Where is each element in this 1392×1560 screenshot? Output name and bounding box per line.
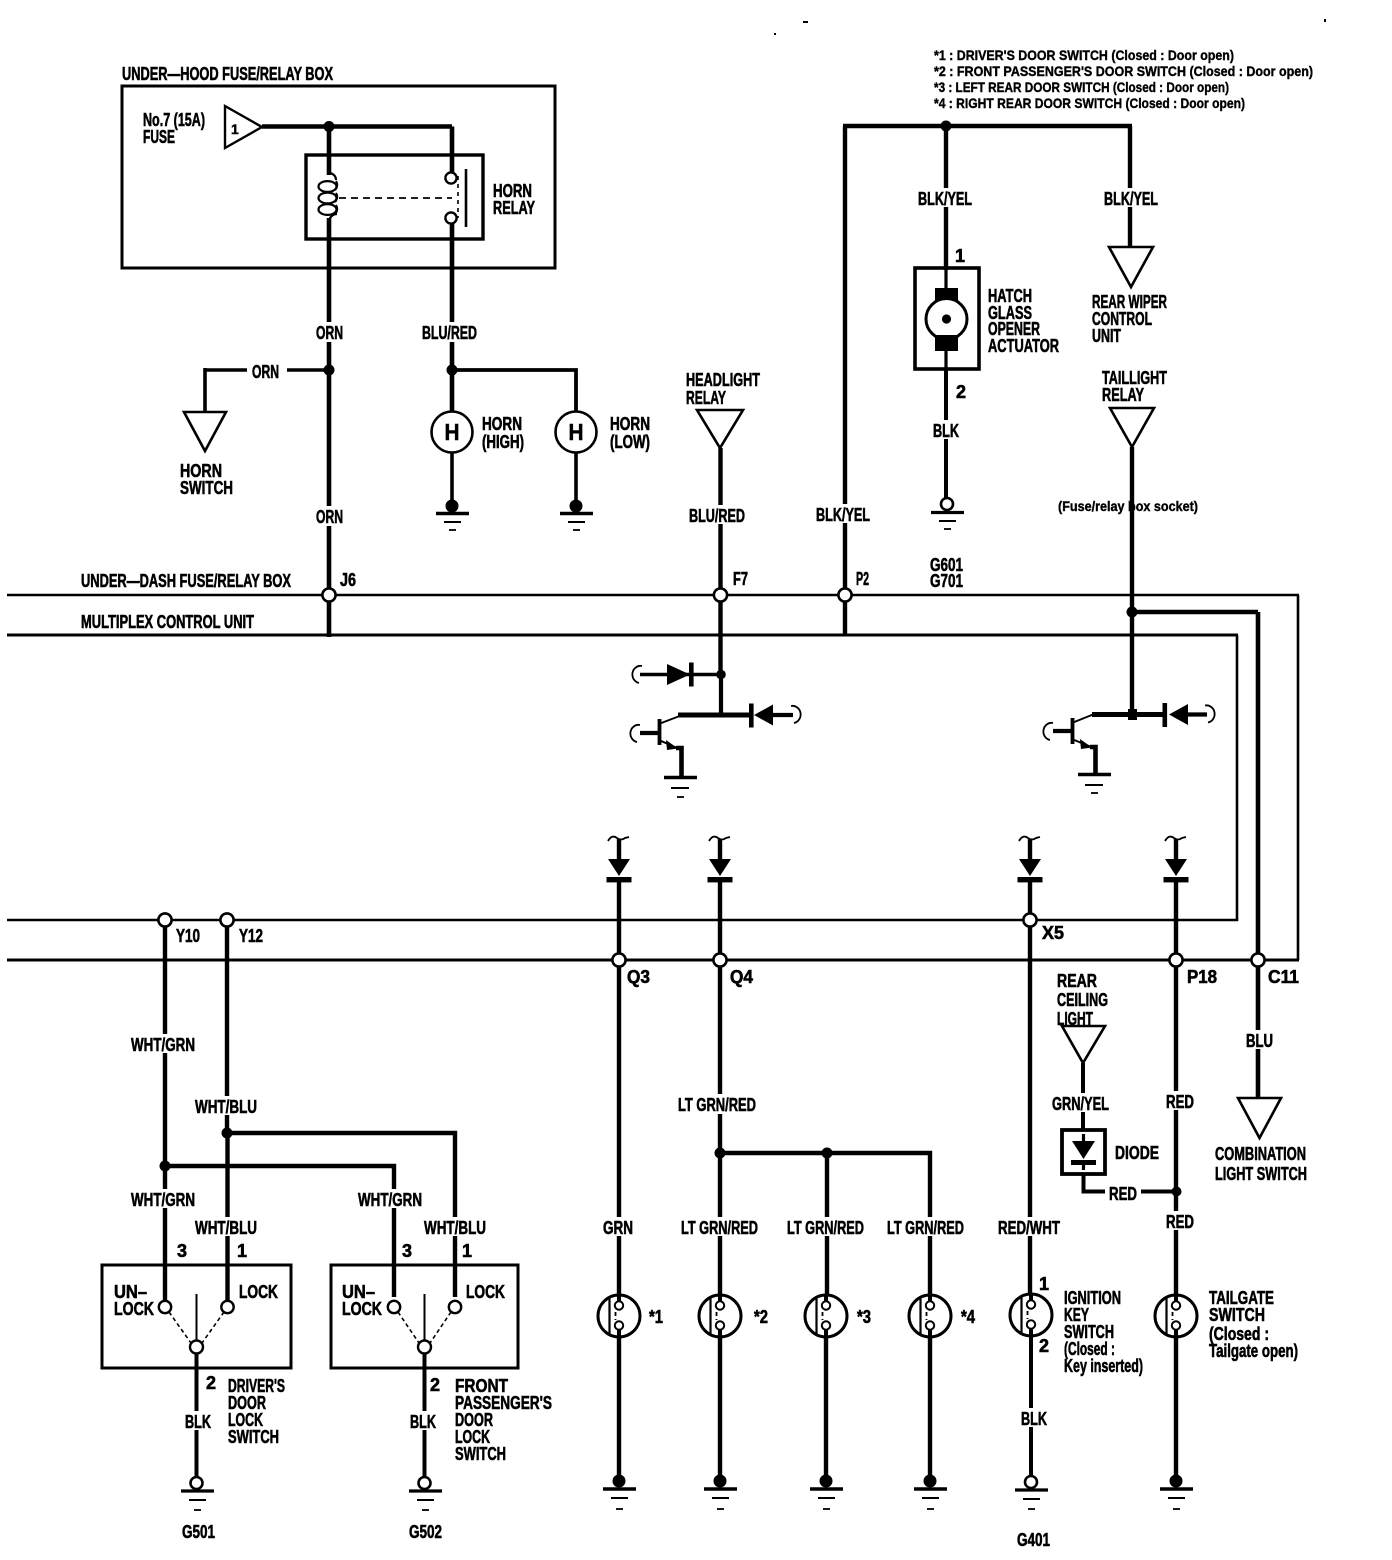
diode D3 right transistor [1163,703,1215,727]
label GRN [599,1217,639,1238]
node junction taillight branch [1127,607,1138,618]
svg-text:WHT/BLU: WHT/BLU [195,1097,257,1117]
wire RED/WHT X5 down to ignition key switch [1028,882,1032,1296]
passenger lock switch contact UN-LOCK [388,1301,400,1313]
svg-text:BLU/RED: BLU/RED [422,323,477,343]
label GRN/YEL [1048,1093,1113,1114]
label WHT/BLU lower right [420,1217,490,1238]
svg-text:RELAY: RELAY [686,388,726,408]
svg-text:H: H [569,419,584,445]
label BLU [1242,1030,1277,1051]
wire BLU/RED relay contact down to horns [450,223,455,412]
svg-text:LOCK: LOCK [239,1282,278,1302]
svg-text:SWITCH: SWITCH [1209,1305,1265,1325]
label WHT/GRN lower left [127,1189,199,1210]
svg-text:1: 1 [955,246,965,266]
svg-text:2: 2 [206,1373,216,1393]
horn relay dashed actuation line [339,197,452,199]
svg-text:P2: P2 [856,569,869,589]
horn low circle [556,412,597,453]
svg-text:BLK/YEL: BLK/YEL [816,505,870,525]
ground tailgate switch [1160,1475,1193,1510]
horn relay coil [329,173,336,180]
actuator motor center dot [942,314,951,323]
horn switch triangle [184,412,226,451]
wire branch to horn low [452,370,576,412]
svg-text:SWITCH: SWITCH [455,1444,506,1464]
label ORN lower [312,506,348,527]
svg-text:LT GRN/RED: LT GRN/RED [787,1218,864,1238]
svg-text:*4 : RIGHT REAR DOOR SWITCH (C: *4 : RIGHT REAR DOOR SWITCH (Closed : Do… [934,95,1245,111]
svg-text:UNDER—HOOD FUSE/RELAY BOX: UNDER—HOOD FUSE/RELAY BOX [122,64,333,84]
node junction RED [1172,1187,1182,1197]
wire branch to door switches 3 and 4 [720,1153,930,1297]
wire passenger lock switch pin 2 to ground [423,1353,427,1478]
svg-text:ORN: ORN [316,507,343,527]
svg-text:ORN: ORN [252,362,279,382]
svg-text:LT GRN/RED: LT GRN/RED [678,1095,756,1115]
connector J6 [322,588,335,601]
label BLK/YEL wiper [1100,188,1162,209]
actuator motor wire out [944,347,947,369]
horn relay contact bar [465,169,468,227]
passenger door lock switch box [331,1265,518,1368]
ground G601 open circle [931,498,964,529]
svg-text:1: 1 [1039,1274,1049,1294]
svg-text:1: 1 [231,121,239,137]
svg-text:1: 1 [462,1241,472,1261]
label BLK passenger [406,1411,440,1432]
wire tailgate switch to ground [1174,1337,1178,1477]
wire ORN branch to horn switch [205,368,329,372]
svg-text:H: H [445,419,460,445]
svg-text:(LOW): (LOW) [610,432,650,452]
wire BLK actuator to ground [944,369,948,499]
ground door switch 3 [810,1475,843,1510]
label LT GRN/RED wire 4 [883,1217,969,1238]
label BLK driver [181,1411,215,1432]
diode D5 above Q4 [708,837,733,883]
svg-text:LT GRN/RED: LT GRN/RED [681,1218,758,1238]
svg-text:Y10: Y10 [176,926,200,946]
wire BLK/YEL down to P2 [843,126,847,636]
label LT GRN/RED above junction [674,1094,760,1115]
wire ORN down to J6 [327,370,332,637]
svg-text:RED/WHT: RED/WHT [998,1218,1060,1238]
transistor Q-right node junction [1128,709,1137,720]
svg-text:(HIGH): (HIGH) [482,432,524,452]
svg-text:*2: *2 [754,1307,768,1327]
multiplex control unit bottom border line [7,919,1238,922]
svg-text:MULTIPLEX CONTROL UNIT: MULTIPLEX CONTROL UNIT [81,612,254,632]
wire contact feed down [450,127,455,174]
actuator motor commutator bottom [935,335,958,351]
svg-text:Q3: Q3 [627,967,650,987]
wire door switch 3 to ground [824,1337,828,1477]
svg-text:WHT/GRN: WHT/GRN [131,1190,195,1210]
svg-text:REAR: REAR [1057,971,1097,991]
scan speck [1324,19,1326,22]
node junction WHT/BLU [222,1128,233,1139]
wire coil bottom down [327,218,332,370]
svg-text:HORN: HORN [482,414,522,434]
svg-text:BLK/YEL: BLK/YEL [918,189,972,209]
svg-text:DIODE: DIODE [1115,1143,1159,1163]
under-dash fuse/relay box right border [1297,595,1300,960]
headlight relay triangle [697,410,743,448]
svg-text:F7: F7 [733,569,748,589]
ground left transistor [664,778,697,798]
ground horn low [560,500,593,531]
svg-text:*1: *1 [649,1307,663,1327]
diode D8 box [1062,1130,1105,1174]
svg-text:SWITCH: SWITCH [180,478,233,498]
svg-text:RELAY: RELAY [1102,385,1144,405]
connector C11 [1251,953,1264,966]
passenger lock switch pole [398,1294,451,1354]
svg-text:Y12: Y12 [239,926,263,946]
node junction BLK/YEL [941,121,952,132]
wire GRN Q3 down to door switch 1 [617,882,621,1297]
wire BLK/YEL down to actuator [944,126,948,270]
label WHT/BLU lower left [191,1217,261,1238]
wire door switch 2 to ground [718,1337,722,1477]
under-hood fuse/relay box outline [122,86,555,268]
svg-text:BLK: BLK [933,421,959,441]
label BLU/RED at F7 [685,505,750,526]
wire WHT/BLU into driver lock switch [225,1133,229,1302]
svg-text:HORN: HORN [610,414,650,434]
wire RED P18 down to tailgate switch [1174,882,1178,1297]
scan speck [803,21,808,23]
wire base rail right transistor [1092,712,1163,717]
rear wiper control unit triangle [1109,247,1153,287]
diode D4 above Q3 [607,837,632,883]
svg-text:LOCK: LOCK [114,1299,154,1319]
svg-text:BLU: BLU [1246,1031,1273,1051]
hatch glass opener actuator box [915,268,979,369]
driver lock switch contact LOCK [221,1301,233,1313]
horn relay moving contact dashed [457,176,459,218]
connector P2 [838,588,851,601]
label BLK ignition [1017,1408,1051,1429]
wire base rail left transistor [678,713,752,718]
under-dash fuse/relay box bottom border line [7,959,1299,962]
svg-text:Q4: Q4 [730,967,753,987]
driver door lock switch box [102,1265,291,1368]
scan speck [774,33,776,35]
svg-text:3: 3 [402,1241,412,1261]
actuator motor wire in [944,268,947,292]
wire horn switch drop [203,368,207,413]
svg-text:Key inserted): Key inserted) [1064,1356,1143,1376]
svg-text:ORN: ORN [316,323,343,343]
label RED/WHT [994,1217,1064,1238]
tailgate switch circle [1155,1295,1197,1337]
label ORN branch [247,361,287,382]
svg-text:RED: RED [1166,1092,1194,1112]
door switch 4 circle [909,1295,951,1337]
svg-text:WHT/GRN: WHT/GRN [131,1035,195,1055]
wire coil feed down [327,127,332,176]
wire WHT/GRN Y10 down [163,921,167,1166]
label WHT/BLU upper [191,1096,261,1117]
wire down to door switch 3 [825,1153,829,1297]
label WHT/GRN lower right [354,1189,426,1210]
driver lock switch pole [169,1294,224,1354]
wire BLK ignition to ground [1029,1336,1033,1477]
wire GRN/YEL ceiling light to diode [1081,1063,1085,1130]
svg-text:RED: RED [1166,1212,1194,1232]
ground G502 [409,1477,442,1510]
svg-text:*2 : FRONT PASSENGER'S DOOR SW: *2 : FRONT PASSENGER'S DOOR SWITCH (Clos… [934,63,1313,79]
svg-text:BLK: BLK [410,1412,436,1432]
ground door switch 2 [704,1475,737,1510]
svg-text:UNDER—DASH FUSE/RELAY BOX: UNDER—DASH FUSE/RELAY BOX [81,571,291,591]
ground right transistor [1078,775,1111,794]
svg-text:1: 1 [237,1241,247,1261]
node junction LT GRN/RED branch [715,1148,726,1159]
label RED diode [1105,1183,1141,1204]
svg-text:WHT/BLU: WHT/BLU [195,1218,257,1238]
connector F7 [714,588,727,601]
multiplex control unit right border [1236,635,1239,921]
label BLU/RED upper [418,322,481,343]
svg-text:*3 : LEFT REAR DOOR SWITCH (Cl: *3 : LEFT REAR DOOR SWITCH (Closed : Doo… [934,79,1229,95]
fuse F1 triangle symbol [225,106,262,148]
svg-text:WHT/GRN: WHT/GRN [358,1190,422,1210]
svg-text:BLU/RED: BLU/RED [689,506,745,526]
label BLK actuator [929,420,963,441]
svg-text:*3: *3 [857,1307,871,1327]
wire fuse output to relay [262,124,452,129]
actuator motor circle [926,299,967,340]
svg-text:C11: C11 [1268,967,1299,987]
wire BLU/RED headlight relay to F7 [718,448,722,676]
label LT GRN/RED wire 3 [783,1217,869,1238]
svg-text:LOCK: LOCK [466,1282,505,1302]
connector Q3 [612,953,625,966]
svg-text:*1 : DRIVER'S DOOR SWITCH (Clo: *1 : DRIVER'S DOOR SWITCH (Closed : Door… [934,47,1234,63]
svg-text:2: 2 [1039,1336,1049,1356]
horn relay lower contact circle [445,212,456,223]
svg-text:UNIT: UNIT [1092,326,1121,346]
svg-text:G501: G501 [182,1522,215,1542]
multiplex control unit top border line [7,634,1238,637]
connector X5 [1023,913,1036,926]
door switch 3 circle [805,1295,847,1337]
diode D6 above X5 [1018,837,1043,883]
svg-text:WHT/BLU: WHT/BLU [424,1218,486,1238]
wire door switch 1 to ground [617,1337,621,1477]
svg-text:COMBINATION: COMBINATION [1215,1144,1306,1164]
connector Q4 [713,953,726,966]
ignition key switch circle [1010,1294,1052,1336]
wire BLK/YEL down to rear wiper [1128,126,1132,248]
transistor Q1 [630,716,681,777]
wire WHT/BLU branch to passenger lock switch [227,1133,455,1297]
diode D1 into left transistor node [632,663,721,687]
wire taillight relay down [1130,447,1134,715]
wire node down to base rail [719,675,723,716]
wire WHT/BLU Y12 down [225,921,229,1133]
door switch 1 circle [598,1295,640,1337]
under-dash fuse/relay box top border line [7,594,1299,597]
wire horn low to ground [574,452,578,503]
svg-text:LOCK: LOCK [342,1299,382,1319]
horn high circle [432,412,473,453]
label LT GRN/RED wire 2 [677,1217,763,1238]
svg-text:P18: P18 [1187,967,1217,987]
node junction WHT/GRN [160,1161,171,1172]
wire horn high to ground [450,452,454,503]
ground G401 [1015,1476,1048,1509]
taillight relay triangle [1110,408,1154,447]
actuator motor commutator top [935,288,958,303]
ground door switch 4 [914,1475,947,1510]
label WHT/GRN upper [127,1034,199,1055]
svg-text:GRN/YEL: GRN/YEL [1052,1094,1109,1114]
svg-text:G502: G502 [409,1522,442,1542]
svg-text:(Fuse/relay box socket): (Fuse/relay box socket) [1058,498,1198,514]
label BLK/YEL actuator [914,188,976,209]
wire WHT/GRN into driver lock switch [163,1166,167,1302]
svg-text:G401: G401 [1017,1530,1050,1550]
svg-text:G701: G701 [930,571,963,591]
passenger lock switch contact LOCK [449,1301,461,1313]
horn relay box [306,155,483,239]
svg-text:BLK: BLK [185,1412,211,1432]
horn relay upper contact circle [445,172,456,183]
ground door switch 1 [603,1475,636,1510]
ground G501 [181,1477,214,1510]
wire RED diode to junction [1084,1174,1178,1192]
wire BLK/YEL top distribution [843,124,1132,129]
node junction fuse wire [324,121,335,132]
connector P18 [1169,953,1182,966]
node junction door switch 3 [822,1148,833,1159]
connector Y10 [158,913,171,926]
svg-text:X5: X5 [1042,923,1064,943]
svg-text:CEILING: CEILING [1057,990,1108,1010]
svg-text:LIGHT SWITCH: LIGHT SWITCH [1215,1164,1307,1184]
svg-text:LT GRN/RED: LT GRN/RED [887,1218,964,1238]
svg-text:BLK/YEL: BLK/YEL [1104,189,1158,209]
wire BLU down through C11 [1256,612,1261,1099]
svg-text:J6: J6 [340,570,356,590]
driver lock switch contact UN-LOCK [159,1301,171,1313]
connector Y12 [220,913,233,926]
wire driver lock switch pin 2 to ground [195,1353,199,1478]
transistor Q-left collector junction [716,670,726,680]
svg-text:Tailgate open): Tailgate open) [1209,1341,1298,1361]
label ORN upper [312,322,348,343]
svg-text:RED: RED [1109,1184,1137,1204]
label BLK/YEL at P2 [812,504,874,525]
svg-text:2: 2 [956,382,966,402]
svg-text:*4: *4 [961,1307,975,1327]
svg-text:2: 2 [430,1375,440,1395]
transistor Q2 [1043,715,1095,774]
diode D2 right of left transistor [749,704,801,728]
label RED above junction [1162,1091,1198,1112]
ground horn high [436,500,469,531]
wire taillight branch to C11 [1132,610,1258,615]
svg-text:HEADLIGHT: HEADLIGHT [686,370,760,390]
svg-text:ACTUATOR: ACTUATOR [988,336,1059,356]
diode D7 above P18 [1164,837,1189,883]
svg-text:FUSE: FUSE [143,127,175,147]
svg-text:BLK: BLK [1021,1409,1047,1429]
svg-text:SWITCH: SWITCH [228,1427,279,1447]
label RED below junction [1162,1211,1198,1232]
wire door switch 4 to ground [928,1337,932,1477]
door switch 2 circle [699,1295,741,1337]
node junction ORN branch [324,365,335,376]
rear ceiling light triangle [1062,1026,1105,1063]
svg-text:RELAY: RELAY [493,198,535,218]
wire LT GRN/RED Q4 down to door switch 2 [718,882,722,1297]
svg-text:3: 3 [177,1241,187,1261]
svg-text:GRN: GRN [603,1218,633,1238]
node junction BLU/RED branch [447,365,458,376]
wire WHT/GRN branch to passenger lock switch [165,1166,394,1297]
combination light switch triangle [1238,1098,1281,1138]
